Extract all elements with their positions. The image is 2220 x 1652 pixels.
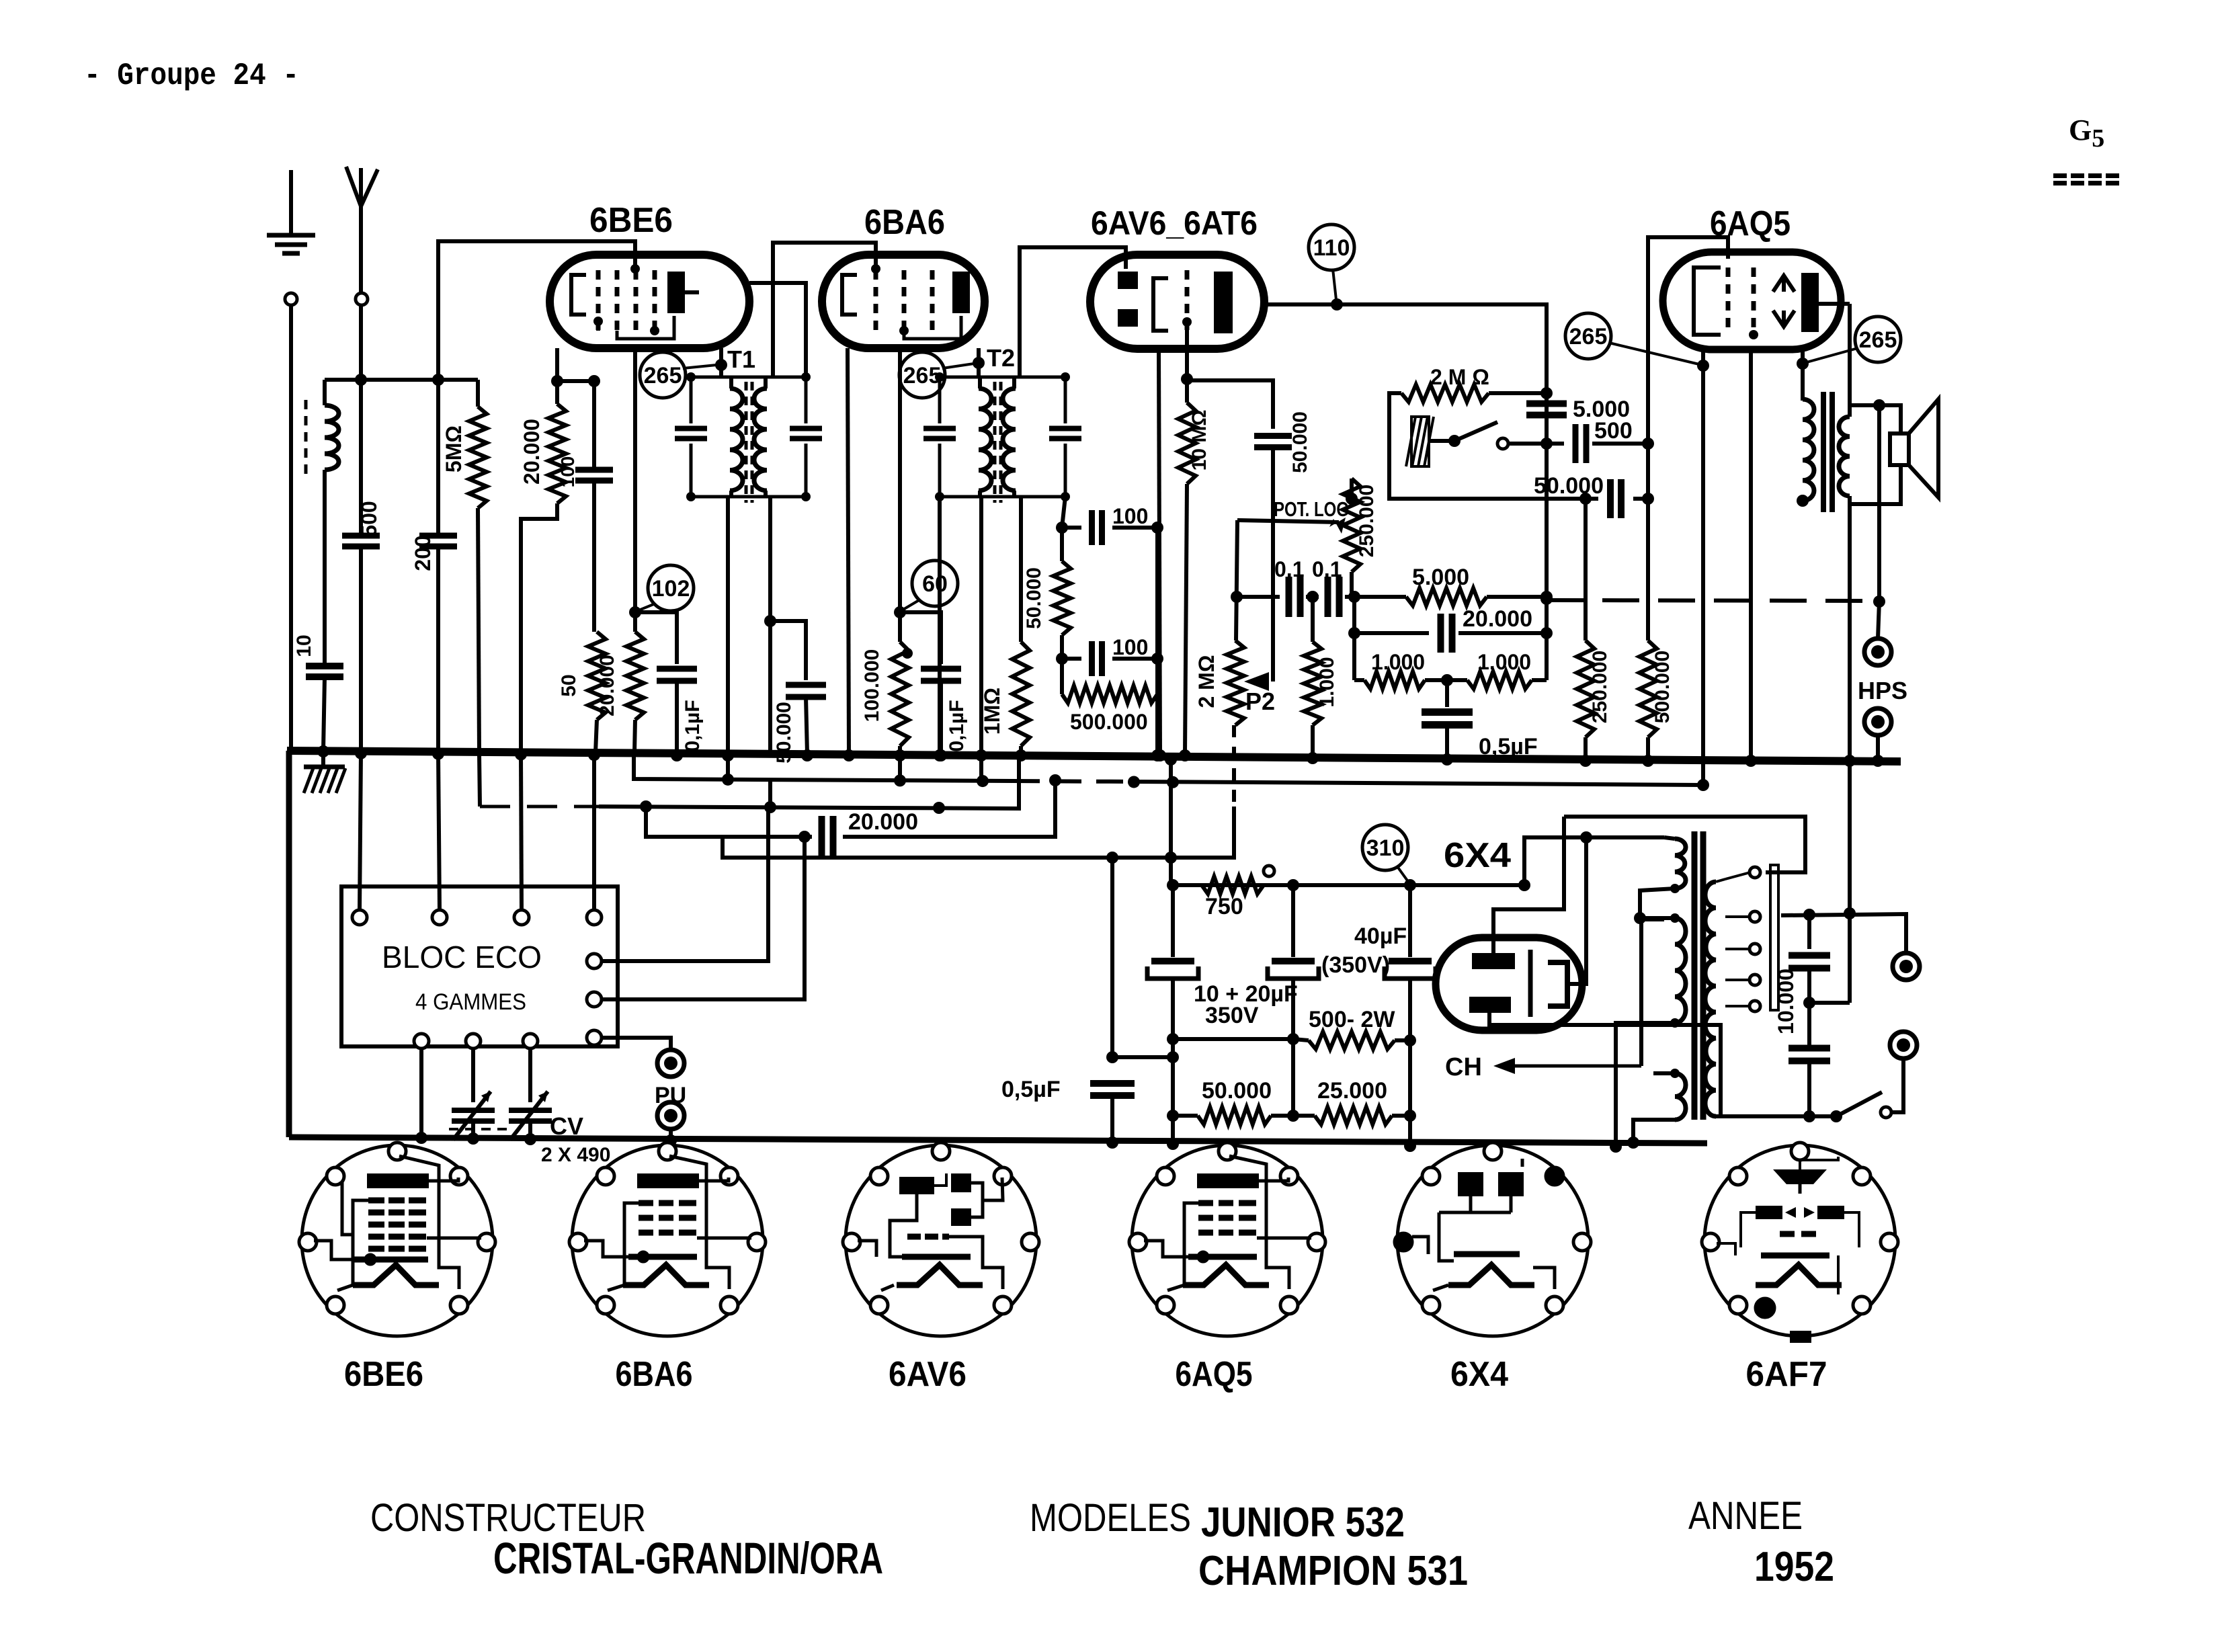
wire T1 prim coil to bus xyxy=(726,497,730,780)
wire to 0.1uF b xyxy=(900,612,941,664)
wire 500-2W right xyxy=(1395,1038,1410,1042)
PU jack lower xyxy=(657,1102,684,1129)
6AV6 diode plate 2 xyxy=(1118,309,1138,327)
BLOC pin top 776 xyxy=(514,910,529,925)
svg-text:2 X 490: 2 X 490 xyxy=(541,1144,610,1166)
electrolytic filter mid xyxy=(1268,961,1319,979)
variable capacitor CV2 xyxy=(509,1091,552,1140)
6AQ5 plate xyxy=(1801,273,1819,332)
wire 6AQ5 plate down xyxy=(1801,349,1805,401)
wire 5.000 right xyxy=(1487,595,1547,599)
wire 250kb top xyxy=(1584,499,1588,641)
output tube 6AQ5 xyxy=(1663,252,1841,349)
resistor 50.000 c xyxy=(1053,561,1071,635)
wire 500cap down to bus xyxy=(359,546,363,752)
6AQ5 grid dashed 2 xyxy=(1752,267,1756,335)
junction upper 100 right xyxy=(1151,522,1163,534)
wire 50.000d down xyxy=(1271,448,1275,682)
electrostatic shield bar xyxy=(1770,865,1778,1010)
junction riser 742 xyxy=(1642,493,1654,505)
wire 25k left xyxy=(1293,1114,1315,1118)
wire 50kg right xyxy=(1271,1114,1293,1118)
T2 primary cap xyxy=(923,429,956,439)
junction 0.1 left xyxy=(1231,591,1243,603)
T1 box frame xyxy=(691,377,806,497)
PT tap circle 2 xyxy=(1750,911,1760,922)
svg-text:40µF: 40µF xyxy=(1354,923,1407,949)
junction T2 plate node xyxy=(973,357,985,369)
wire secondary return down xyxy=(1848,496,1852,759)
wire speaker return lower xyxy=(1848,761,1852,1003)
PT tap circle 1 xyxy=(1750,867,1760,878)
junction 100pF top xyxy=(588,375,600,387)
wire 6AV6 cathode to bus xyxy=(1159,349,1160,754)
wire 500ka right to bus xyxy=(1155,694,1159,754)
pot tap dot xyxy=(902,648,913,659)
wire T2 right frame down xyxy=(1062,497,1065,528)
wire 6X4 plate line xyxy=(1564,817,1805,872)
wire lower100 left xyxy=(1062,657,1081,661)
svg-text:265: 265 xyxy=(1859,327,1897,353)
capacitor 10.000 lower xyxy=(1789,1048,1830,1061)
resistor 20.000 cathode xyxy=(626,632,644,720)
chassis ground bus xyxy=(287,751,1901,761)
hatched wall xyxy=(1406,417,1434,466)
capacitor 0,1uF b xyxy=(921,669,961,681)
resistor 50.000 g xyxy=(1198,1107,1271,1124)
wire antenna down xyxy=(359,305,363,380)
T2 secondary coil xyxy=(1003,388,1016,491)
6AV6 plate xyxy=(1214,272,1233,333)
output transformer core xyxy=(1823,392,1832,512)
wire antenna coil top xyxy=(323,380,327,405)
PT coil3 bottom lead xyxy=(1633,1120,1675,1143)
6BA6 grid 1 dashed xyxy=(874,270,878,331)
wire 200cap down to bus xyxy=(436,546,440,752)
wire 5M top stub xyxy=(476,380,480,407)
mains switch pivot xyxy=(1830,1110,1842,1122)
junction speaker top x2796 xyxy=(1873,399,1885,411)
junction bus 1460 xyxy=(975,749,987,761)
ground lead wire xyxy=(289,170,293,234)
svg-text:6BA6: 6BA6 xyxy=(864,203,945,242)
svg-text:100: 100 xyxy=(1112,635,1148,659)
svg-text:1952: 1952 xyxy=(1754,1544,1834,1590)
HPS jack lower xyxy=(1864,708,1891,735)
junction rail 2404 xyxy=(1610,1141,1622,1153)
wire switch to jack xyxy=(1891,1059,1903,1112)
6X4 cathode bracket b xyxy=(1548,962,1567,1006)
wire wall to pivot xyxy=(1429,439,1454,443)
antenna terminal xyxy=(356,293,368,305)
svg-text:100.000: 100.000 xyxy=(861,649,883,722)
6X4 cathode bracket a xyxy=(1528,950,1533,1017)
wire stub 100k xyxy=(898,612,902,642)
junction 5.000 right xyxy=(1540,591,1553,603)
wire 20k bottom to bus xyxy=(521,503,557,752)
wire plate line drop xyxy=(1545,304,1549,680)
leader 265 d xyxy=(1807,348,1858,362)
wire mid to speaker return xyxy=(1809,1001,1850,1005)
wire 10+20 to 50kg xyxy=(1171,1039,1175,1144)
junction 1745-1660 xyxy=(1167,1110,1179,1122)
6BA6 internal connect xyxy=(904,316,961,339)
HPS jack upper xyxy=(1864,638,1891,665)
svg-text:6AV6: 6AV6 xyxy=(889,1355,967,1394)
T1 corner dot d xyxy=(801,492,811,501)
BLOC ECO box xyxy=(341,886,618,1046)
leader 110 xyxy=(1333,269,1336,300)
junction rail A 1570 xyxy=(1049,774,1061,786)
power transformer core xyxy=(1694,831,1703,1120)
T1 core dashed 1 xyxy=(745,382,748,503)
wire 1k pair c xyxy=(1532,678,1547,682)
wire 250kb to bus xyxy=(1584,737,1588,759)
wire x1655 top xyxy=(1110,858,1114,1057)
T2 prim top lead xyxy=(978,377,982,388)
voltage 265 c xyxy=(1565,313,1611,359)
capacitor 20.000 c xyxy=(822,816,833,858)
wire 500cap up xyxy=(359,380,363,536)
junction 102 node xyxy=(629,606,641,618)
wire 100cap to 50res xyxy=(592,481,596,632)
junction 10k mid xyxy=(1803,997,1815,1009)
test point 60 xyxy=(912,561,958,606)
svg-text:BLOC ECO: BLOC ECO xyxy=(382,940,542,975)
svg-text:20.000: 20.000 xyxy=(596,655,618,716)
T1 sec bottom lead xyxy=(764,491,768,497)
wire 40uF col c xyxy=(1408,1040,1412,1146)
6X4 plate top xyxy=(1472,953,1515,969)
voltage 265 a xyxy=(640,352,686,398)
6BE6 grid 1 dashed xyxy=(596,270,601,331)
electrolytic 10+20uF 350V xyxy=(1147,961,1198,979)
leader 265 a xyxy=(683,365,716,368)
PT coil2 bottom dot xyxy=(1670,1018,1680,1028)
rail A end junction xyxy=(1697,779,1709,791)
resistor 20.000 osc grid xyxy=(548,404,566,503)
junction 265d node xyxy=(1797,358,1809,370)
svg-text:0,1µF: 0,1µF xyxy=(682,700,704,751)
6BE6 internal connect xyxy=(617,316,674,339)
6BE6 grid3 pin dot xyxy=(630,264,640,274)
chassis bottom rail xyxy=(289,1137,1707,1143)
svg-text:- Groupe 24 -: - Groupe 24 - xyxy=(84,58,299,93)
junction dashed right xyxy=(1873,595,1885,608)
wire wiper to left rail xyxy=(1237,520,1339,522)
svg-text:500.000: 500.000 xyxy=(1651,651,1674,723)
BLOC pin top 654 xyxy=(432,910,447,925)
wire 1k pair b xyxy=(1425,678,1467,682)
PT tap circle 3 xyxy=(1750,944,1760,954)
wire line y1276 xyxy=(723,837,1234,858)
wire 50.000b to bus xyxy=(806,697,807,754)
junction 60 node xyxy=(894,606,906,618)
svg-text:100: 100 xyxy=(1112,504,1148,528)
T1 corner dot a xyxy=(686,372,696,382)
svg-text:6AQ5: 6AQ5 xyxy=(1176,1355,1253,1394)
resistor 250.000 b xyxy=(1577,641,1594,737)
wire T2 coil col to rail A xyxy=(979,497,983,781)
wire T2 sec top to 6AV6 diode W3 xyxy=(1020,247,1126,377)
wire ground terminal to chassis frame xyxy=(289,305,293,751)
junction bus 1.000v xyxy=(1307,752,1319,764)
svg-text:0,1µF: 0,1µF xyxy=(946,700,968,751)
potentiometer 250.000 POT.LOG xyxy=(1343,479,1360,572)
wire 50kg left xyxy=(1173,1114,1198,1118)
wire right col down xyxy=(1848,304,1852,417)
resistor 1Mohm xyxy=(1012,642,1030,746)
wire x2796 down xyxy=(1877,405,1881,602)
junction primary bottom xyxy=(1797,495,1809,507)
svg-text:T2: T2 xyxy=(987,344,1015,372)
resistor 50 cathode xyxy=(588,632,606,720)
T1 primary cap xyxy=(675,429,707,439)
wire x1742 bus to B+ xyxy=(1169,758,1173,885)
svg-text:50.000: 50.000 xyxy=(1023,567,1045,629)
svg-text:CH: CH xyxy=(1445,1053,1482,1081)
wire 50kc to lower100 xyxy=(1060,635,1064,659)
capacitor 100 lower xyxy=(1092,641,1102,676)
T2 corner dot d xyxy=(1061,492,1070,501)
junction rail CV1 xyxy=(467,1132,479,1145)
BLOC pin right 1487 xyxy=(587,992,602,1007)
junction 110 node xyxy=(1331,298,1343,311)
T2 core dashed 1 xyxy=(993,382,997,503)
chassis frame left xyxy=(286,751,292,1137)
junction antenna/coil xyxy=(355,374,367,386)
junction riser 660 xyxy=(1642,438,1654,450)
wire 20.000c left corner xyxy=(646,807,812,837)
junction B+ 40uF xyxy=(1404,879,1416,891)
junction 2M right xyxy=(1540,387,1553,399)
svg-text:1.000: 1.000 xyxy=(1477,650,1531,674)
wire 10+20 col a xyxy=(1171,885,1175,957)
wire 6BA6 g1 down xyxy=(898,348,902,612)
wire 10M to bus xyxy=(1185,484,1187,754)
wire 6AV6 grid down xyxy=(1185,322,1189,403)
6X4 plate bottom xyxy=(1469,997,1511,1013)
wire 6BE6 screen to T1 right column xyxy=(749,283,806,377)
socket diagram 6AF7 xyxy=(1702,1143,1898,1343)
junction rail 2430 xyxy=(1627,1137,1639,1149)
junction bottom line 2692 xyxy=(1803,1110,1815,1122)
junction 20kd left xyxy=(1348,627,1360,639)
svg-text:10 MΩ: 10 MΩ xyxy=(1188,410,1210,471)
wire 20kd b xyxy=(1458,631,1547,635)
wire grid to 50.000d xyxy=(1187,380,1273,429)
wire 50kc top xyxy=(1060,528,1064,561)
svg-text:0,5µF: 0,5µF xyxy=(1001,1077,1061,1102)
wire 0.5uF to bus xyxy=(1445,725,1449,758)
hatched chassis ground xyxy=(304,767,345,793)
wire coil bottom to 10pF xyxy=(323,470,327,665)
rail B junction 1146 xyxy=(764,801,776,813)
svg-text:10: 10 xyxy=(293,634,315,657)
6AQ5 grid2 pin dot xyxy=(1749,330,1758,339)
svg-text:6AV6_6AT6: 6AV6_6AT6 xyxy=(1091,204,1258,242)
svg-text:265: 265 xyxy=(644,363,682,388)
svg-text:1.000: 1.000 xyxy=(1316,657,1338,707)
wire 6BE6 pin to 20k resistor xyxy=(555,348,559,404)
svg-text:6BA6: 6BA6 xyxy=(616,1355,693,1394)
wire CV1 to rail xyxy=(471,1121,475,1139)
BLOC pin bottom 704 xyxy=(466,1034,481,1048)
6BE6 pin dot g1 xyxy=(593,317,603,326)
junction rail 1745 xyxy=(1167,1138,1179,1150)
junction rail 2098 xyxy=(1404,1140,1416,1152)
T2 primary coil xyxy=(979,388,991,491)
wire 10k caps col b xyxy=(1807,968,1811,1048)
junction B+ right xyxy=(1518,879,1530,891)
rail A junction 1462 xyxy=(977,775,989,787)
wire CV2 to rail xyxy=(528,1121,532,1139)
junction 200 cap column xyxy=(432,374,444,386)
wire BLOC osc b xyxy=(602,837,805,999)
heater rail A solid left xyxy=(634,754,1013,781)
6BA6 grid 3 dashed xyxy=(930,270,935,331)
svg-text:6X4: 6X4 xyxy=(1450,1355,1508,1394)
svg-text:350V: 350V xyxy=(1205,1003,1259,1028)
svg-text:265: 265 xyxy=(1569,324,1608,349)
wire bus to BLOC pin 535 xyxy=(360,753,361,910)
BLOC pin bottom 627 xyxy=(414,1034,429,1048)
junction bus 500kb xyxy=(1642,755,1654,767)
P2 to bus dashed mechanical xyxy=(1232,725,1236,807)
svg-text:CHAMPION 531: CHAMPION 531 xyxy=(1198,1548,1468,1594)
250k wiper arrow xyxy=(1329,518,1346,534)
junction T1 plate node xyxy=(715,359,727,371)
6BE6 grid 2 dashed xyxy=(615,270,620,331)
junction bus 100k xyxy=(894,749,906,761)
svg-text:6X4: 6X4 xyxy=(1444,836,1511,875)
6BA6 pin dot xyxy=(899,326,909,335)
T2 secondary cap xyxy=(1049,429,1081,439)
P2 wiper arrow xyxy=(1244,672,1269,691)
wire speaker bottom xyxy=(1850,465,1901,504)
svg-text:6BE6: 6BE6 xyxy=(589,201,673,240)
leader 265 b xyxy=(942,364,974,368)
variable capacitor CV1 xyxy=(452,1091,495,1140)
svg-text:6AQ5: 6AQ5 xyxy=(1710,204,1791,243)
wire CV2 feed xyxy=(528,1048,532,1102)
wire pot col down xyxy=(1352,597,1356,680)
mains switch lever xyxy=(1836,1092,1882,1116)
rectifier tube 6X4 xyxy=(1436,938,1582,1030)
svg-text:(350V): (350V) xyxy=(1321,952,1390,978)
wire 2M left drop xyxy=(1389,393,1586,499)
wire 0.5b to rail xyxy=(1110,1096,1114,1143)
wire bus to BLOC pin 776 xyxy=(521,754,522,910)
wire speaker top xyxy=(1850,405,1901,433)
svg-text:500.000: 500.000 xyxy=(1070,710,1148,734)
PT tap lead 2 xyxy=(1725,915,1750,918)
junction between 0.1 caps xyxy=(1307,591,1319,603)
junction bus 6BA6 cathode xyxy=(843,749,855,761)
wire 25k right xyxy=(1392,1114,1410,1118)
voltage 265 d xyxy=(1855,317,1901,362)
leader 60 xyxy=(902,600,920,610)
wire mains jack feed xyxy=(1781,914,1906,953)
6BA6 plate xyxy=(952,272,970,313)
svg-text:P2: P2 xyxy=(1245,688,1275,715)
6AQ5 grid dashed 1 xyxy=(1726,267,1731,335)
wire upper100 right xyxy=(1112,526,1157,530)
wire HPS bottom stub xyxy=(1876,735,1880,759)
resistor 1.000 right xyxy=(1467,671,1532,689)
wire y1573 xyxy=(1112,1055,1173,1059)
potentiometer 2Mohm P2 xyxy=(1227,641,1244,725)
6BA6 grid 2 dashed xyxy=(902,270,907,331)
capacitor 100 upper xyxy=(1092,510,1102,545)
T2 box frame xyxy=(940,377,1065,497)
wire pot bottom stub xyxy=(1350,572,1354,597)
wire T2 prim frame to bus xyxy=(938,497,942,754)
junction 500-2W right xyxy=(1404,1034,1416,1046)
junction 10+20 bottom xyxy=(1167,1033,1179,1045)
wire 0.1 row c xyxy=(1345,595,1406,599)
wire 6AQ5 right plate lead xyxy=(1819,302,1850,306)
heater rail A dashed xyxy=(1013,781,1134,782)
wire bottom line to switch xyxy=(1809,1114,1836,1118)
T1 core dashed 2 xyxy=(751,382,754,503)
PT tap lead 4 xyxy=(1725,979,1750,981)
junction rail B 961 xyxy=(640,800,652,813)
junction bus 6AQ5 pin2 xyxy=(1745,755,1757,767)
6BE6 internal dot xyxy=(650,326,659,335)
capacitor 0,5uF b xyxy=(1090,1083,1135,1096)
resistor 10Mohm xyxy=(1178,403,1196,484)
svg-text:102: 102 xyxy=(652,576,690,602)
junction bus 50.000b xyxy=(801,749,813,761)
resistor 500.000 b xyxy=(1639,641,1657,737)
wire 1M to bus xyxy=(1019,746,1023,754)
pentagrid tube 6BE6 xyxy=(550,255,749,348)
wire 200cap up xyxy=(436,380,440,536)
resistor 500-2W xyxy=(1309,1032,1395,1049)
junction rail 0.5b xyxy=(1106,1137,1118,1149)
T2 corner dot a xyxy=(935,372,944,382)
rail B solid xyxy=(599,758,1019,809)
junction 1655 1276 xyxy=(1106,852,1118,864)
svg-text:250.000: 250.000 xyxy=(1589,651,1611,723)
junction 0.5b top xyxy=(1106,1051,1118,1063)
wire stub xyxy=(633,612,637,632)
BLOC pin right 1544 xyxy=(587,1030,602,1045)
output transformer secondary xyxy=(1839,417,1850,496)
PT tap lead 5 xyxy=(1725,1005,1750,1007)
wire upper100 left xyxy=(1062,526,1081,530)
svg-text:110: 110 xyxy=(1313,235,1350,261)
junction upper 100 left xyxy=(1056,522,1068,534)
junction bus T2 xyxy=(934,749,946,761)
PT coil1 bottom lead xyxy=(1640,889,1675,918)
detector tube 6AV6 xyxy=(1090,255,1264,349)
svg-text:CRISTAL-GRANDIN/ORA: CRISTAL-GRANDIN/ORA xyxy=(493,1533,883,1583)
wire 6AQ5 grid riser xyxy=(1648,237,1728,499)
svg-text:2 M Ω: 2 M Ω xyxy=(1430,365,1489,389)
mains jack lower xyxy=(1890,1032,1917,1059)
junction rail CV2 xyxy=(524,1133,536,1145)
voltage 265 b xyxy=(899,352,945,398)
wire y565 to 5M xyxy=(361,378,478,382)
antenna coupling coil L1 xyxy=(325,405,339,470)
T1 secondary coil xyxy=(754,388,767,491)
wire 6X4 plate2 lead xyxy=(1489,1013,1721,1114)
svg-text:2 MΩ: 2 MΩ xyxy=(1194,655,1219,708)
junction speaker return mains xyxy=(1844,907,1856,919)
wire 500kb to bus xyxy=(1646,737,1650,759)
